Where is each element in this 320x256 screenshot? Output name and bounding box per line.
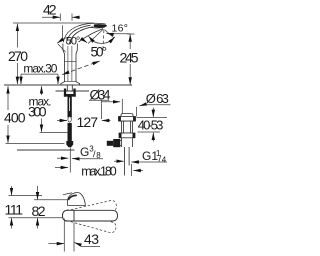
handle capsule dashed down [61,209,117,234]
axis dash-dot right short [105,30,114,38]
base flare [61,82,65,85]
svg-text:G: G [80,145,89,159]
dimension 43 [49,219,101,252]
faucet spout/lever wing [63,23,107,43]
deck bottom line [56,90,90,92]
lower baseline [9,217,63,219]
svg-text:245: 245 [120,49,139,65]
dimension 40-53 [137,108,167,142]
dimension 82 [32,186,68,229]
lever top arc position 2 [66,25,90,43]
spout tip wedge [88,22,106,25]
label 16deg [106,23,130,35]
label max.30 [21,62,58,85]
dimension 245 [120,34,139,85]
svg-text:127: 127 [77,114,99,130]
dimension 127 [57,114,111,130]
spout axis shallow dash [62,61,99,75]
dimension 270 [8,24,28,84]
rod housing block [113,139,120,147]
extension line at lever back [62,25,64,38]
outlet axis dashed [102,30,105,48]
plug cap [121,114,133,117]
hose white window [68,117,71,123]
angle arc 50deg upper (lever) [57,36,87,53]
wire lower reference line [17,149,75,151]
flange [119,117,136,122]
side outlet pipe [114,140,122,145]
angle arc 50deg lower (spout) [89,36,115,59]
g3/8 connector [66,141,73,147]
svg-text:50°: 50° [66,36,81,48]
dimension 42 [42,1,80,20]
svg-text:50°: 50° [91,44,108,59]
lever handle hub (top-side) [63,193,86,206]
svg-text:Ø 63: Ø 63 [146,91,169,106]
wire top reference line [13,22,94,24]
label G1 1/4 [114,149,167,165]
drain top extension [121,99,123,114]
svg-text:max.30: max.30 [23,62,57,76]
svg-text:max.180: max.180 [81,164,117,178]
handle capsule solid [63,210,118,221]
body [122,121,133,133]
pop-up drain assembly [107,114,136,176]
tailpipe [124,147,126,176]
svg-text:43: 43 [84,231,99,247]
supply hose bar [66,97,73,148]
dimension 400 [4,86,65,143]
nut [119,133,135,138]
dimension 111 [5,186,43,229]
svg-text:111: 111 [5,201,24,217]
svg-text:82: 82 [32,203,46,219]
shank through deck [67,85,72,91]
deck top line [4,84,132,86]
label Oslash63 [137,91,171,117]
label Oslash34 [89,87,120,119]
svg-text:42: 42 [43,1,57,17]
dimension max.180 [55,164,143,178]
axis dash-dot left [88,29,104,44]
mounting bracket and nut [64,89,76,97]
dimension max.300 [28,86,67,132]
handle capsule dashed up [61,200,117,223]
spout top arc [69,27,93,44]
label G3/8 [57,144,103,172]
faucet body column [61,44,80,86]
lever top arc position 1 [63,24,88,43]
svg-text:4: 4 [162,155,167,164]
svg-text:300: 300 [28,104,47,120]
svg-text:40-53: 40-53 [138,117,164,132]
hose seam [69,98,71,112]
spout underside [79,29,104,42]
svg-text:400: 400 [4,110,26,126]
svg-text:16°: 16° [112,23,129,35]
tee below [122,138,133,147]
leg of 50deg [58,44,66,52]
